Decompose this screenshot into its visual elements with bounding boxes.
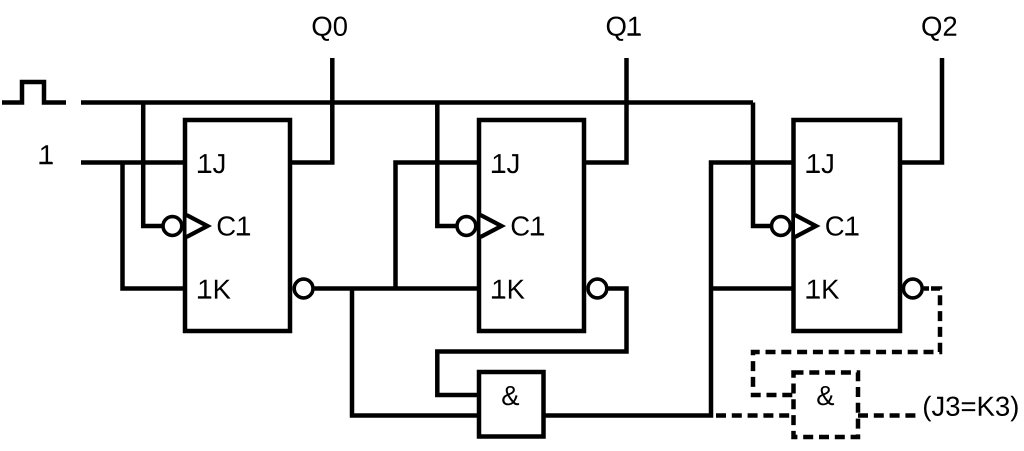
U1 clock inversion bubble (163, 217, 182, 236)
U4 gate label & (502, 386, 519, 405)
U2 pin label 1J (492, 154, 518, 173)
U3 inverted output bubble (903, 279, 922, 298)
wire: clock bus (81, 100, 753, 105)
U1 pin label 1J (198, 154, 224, 173)
node: label (J3=K3) (924, 396, 1018, 422)
flip-flop U2 box (479, 120, 584, 331)
U1 dynamic clock input triangle (187, 215, 208, 237)
wire: clock drop to U2 pin C1 (437, 103, 456, 227)
wire: U3 inverted output solid stub (924, 286, 929, 291)
wire: clock drop to U3 pin C1 (753, 103, 771, 227)
flip-flop U1 box (185, 120, 290, 331)
node: Q1 output label (607, 17, 641, 41)
wire: constant-1 branch down to U1 pin 1K (123, 163, 186, 289)
node: constant 1 label (39, 145, 52, 164)
U3 pin label 1J (806, 154, 832, 173)
U3 clock inversion bubble (772, 217, 791, 236)
wire: U1 Q output to Q0 (290, 58, 332, 163)
wire: dashed output of U5 (858, 413, 916, 418)
wire: dashed feedback from U3 inverted output to U5 upper input (753, 289, 940, 396)
U2 inverted output bubble (588, 279, 607, 298)
U3 pin label 1K (806, 280, 839, 299)
wire: U4 output to U3 pins 1J/1K (544, 163, 794, 416)
U1 inverted output bubble (294, 279, 313, 298)
wire: U3 Q output to Q2 (900, 58, 942, 163)
wire: constant-1 to U1 pin 1J (81, 160, 185, 165)
wire: branch down to AND gate U4 lower input (352, 289, 479, 416)
wire: branch to U3 pin 1K (711, 286, 794, 291)
U3 dynamic clock input triangle (795, 215, 816, 237)
U3 pin label C1 (826, 216, 858, 236)
wire: clock drop to U1 pin C1 (143, 103, 162, 227)
dashed AND gate U5 box (794, 373, 859, 438)
U1 pin label 1K (198, 280, 231, 299)
flip-flop U3 box (794, 120, 901, 331)
U2 pin label 1K (492, 280, 525, 299)
node: Q2 output label (922, 17, 956, 41)
U2 clock inversion bubble (457, 217, 476, 236)
wire: dashed lower input of U5 from J3=K3 node (716, 413, 794, 418)
node: Q0 output label (313, 17, 347, 41)
wire: U2 Q output to Q1 (584, 58, 627, 163)
U1 pin label C1 (218, 216, 250, 236)
wire: U2 inverted output to AND gate U4 upper input (437, 289, 626, 396)
wire: U1 inverted output to U2 pin 1K (315, 286, 479, 291)
clock pulse symbol (2, 82, 66, 103)
wire: branch up to U2 pin 1J (396, 163, 480, 289)
U2 pin label C1 (512, 216, 544, 236)
U5 gate label & (817, 386, 834, 405)
AND gate U4 box (479, 372, 544, 437)
U2 dynamic clock input triangle (481, 215, 502, 237)
